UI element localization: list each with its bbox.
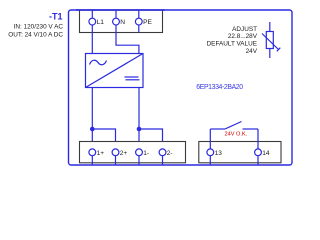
power supply U1 body <box>86 54 144 88</box>
branch wire to 2- <box>139 129 163 149</box>
potentiometer R1 body <box>266 32 273 49</box>
AC sine symbol <box>90 60 107 65</box>
branch wire to 2+ <box>92 129 115 149</box>
terminal block X3 (signal contact) <box>199 142 281 163</box>
svg-text:6EP1334-2BA20: 6EP1334-2BA20 <box>196 84 243 91</box>
svg-text:1+: 1+ <box>97 150 105 157</box>
terminal 14 <box>255 149 262 156</box>
junction node - <box>137 127 142 132</box>
svg-text:24V O.K.: 24V O.K. <box>225 131 248 137</box>
terminal N <box>113 18 120 25</box>
wire + output <box>91 88 93 149</box>
potentiometer R1 lead top <box>269 22 271 32</box>
terminal 1+ <box>89 149 96 156</box>
DC symbol <box>125 76 139 78</box>
terminal 1- <box>136 149 143 156</box>
wire PE stub below <box>138 25 140 33</box>
potentiometer R1 adjust bar <box>277 48 281 52</box>
svg-text:L1: L1 <box>97 19 105 26</box>
wire PE stub above <box>138 10 140 18</box>
terminal PE <box>135 18 142 25</box>
wire stub below 1- <box>138 156 140 165</box>
wire 13 up <box>209 129 211 149</box>
svg-text:PE: PE <box>143 19 152 26</box>
wire N stub above <box>115 10 117 18</box>
potentiometer R1 lead bottom <box>269 49 271 59</box>
svg-text:OUT: 24 V/10 A DC: OUT: 24 V/10 A DC <box>8 31 63 38</box>
junction node + <box>90 127 95 132</box>
wire L1 stub above <box>91 10 93 18</box>
terminal L1 <box>89 18 96 25</box>
wire 14 up <box>257 129 259 149</box>
wire stub below 2+ <box>115 156 117 165</box>
svg-text:ADJUST: ADJUST <box>232 26 257 33</box>
wire stub below 1+ <box>91 156 93 165</box>
svg-text:2+: 2+ <box>120 150 128 157</box>
power supply diagonal <box>86 54 144 88</box>
wire stub below 13 <box>209 156 211 165</box>
svg-text:-T1: -T1 <box>49 12 63 22</box>
wire outline top over block <box>76 9 165 11</box>
svg-text:22.8...28V: 22.8...28V <box>228 33 258 40</box>
wire L1 to power supply <box>91 25 93 54</box>
potentiometer R1 adjust arrow <box>262 34 279 50</box>
svg-text:14: 14 <box>262 150 270 157</box>
wire - output <box>138 88 140 149</box>
terminal 2+ <box>112 149 119 156</box>
terminal 2- <box>159 149 166 156</box>
wire N to power supply (elbow) <box>116 25 139 54</box>
switch S1 contact leads <box>210 128 225 130</box>
svg-text:IN: 120/230 V AC: IN: 120/230 V AC <box>14 24 64 31</box>
terminal block X2 (output) <box>80 142 186 163</box>
svg-text:24V: 24V <box>246 48 258 55</box>
terminal 13 <box>207 149 214 156</box>
svg-text:13: 13 <box>215 150 223 157</box>
switch S1 blade <box>225 122 242 130</box>
wire stub below 2- <box>162 156 164 165</box>
svg-text:DEFAULT VALUE: DEFAULT VALUE <box>207 41 257 48</box>
device outline -T1 boundary <box>69 10 293 165</box>
svg-text:N: N <box>120 19 125 26</box>
wire stub below 14 <box>257 156 259 165</box>
svg-text:2-: 2- <box>167 150 173 157</box>
terminal block X1 (input) <box>80 10 163 32</box>
svg-text:1-: 1- <box>143 150 149 157</box>
